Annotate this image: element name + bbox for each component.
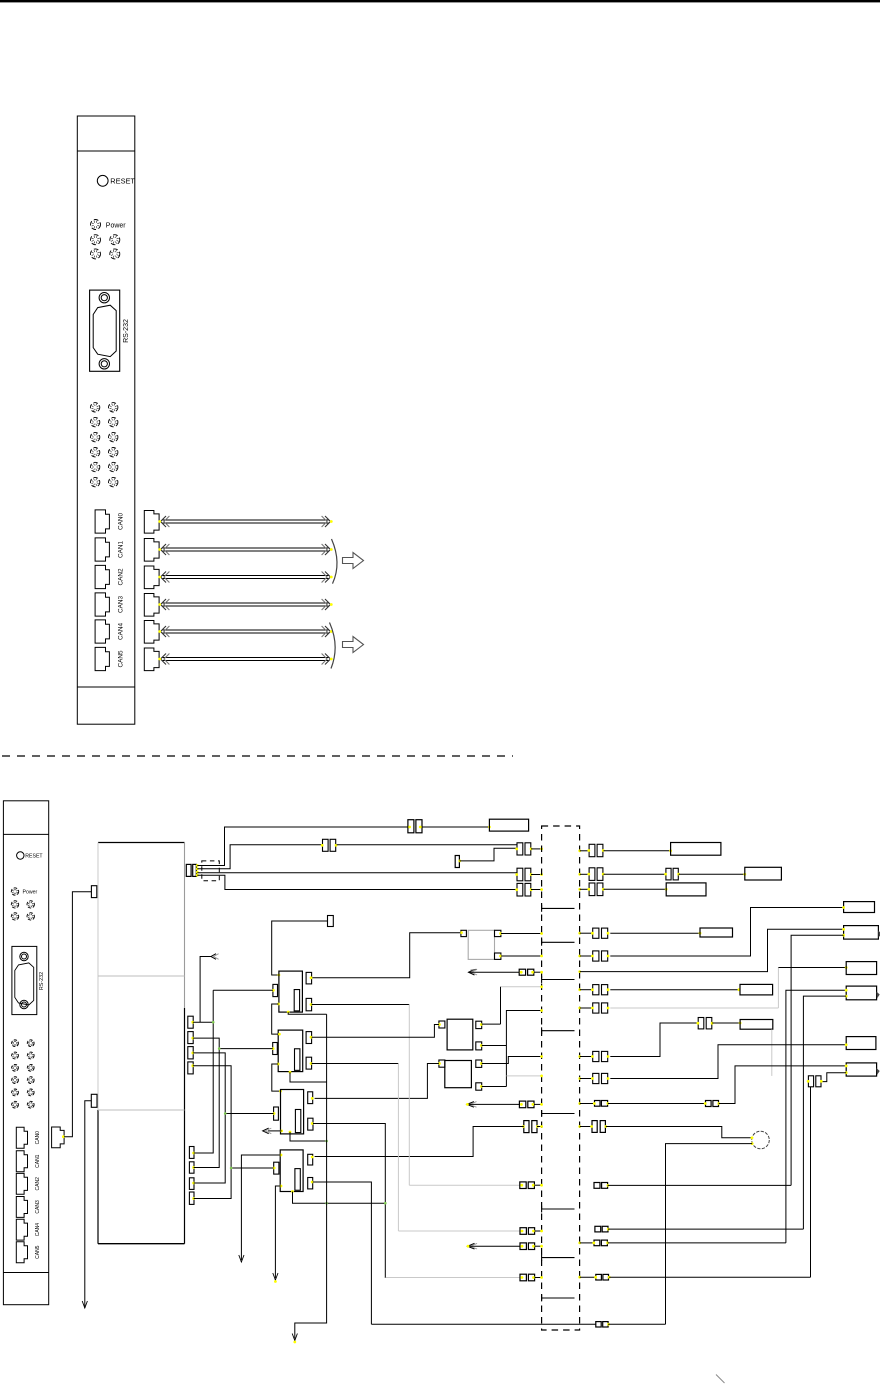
terminal TB1 [844, 902, 875, 913]
svg-text:CAN1: CAN1 [117, 541, 124, 558]
row E pair (grey wire) [578, 1007, 581, 1010]
wire row E left to bundle [506, 1011, 541, 1087]
box T6 [740, 1020, 773, 1030]
wire row I to alarm bell [606, 1127, 752, 1138]
terminal TB2 [844, 926, 879, 940]
bus wire pin2-pin6 [193, 1038, 219, 1167]
CAN1 cable plug [144, 539, 159, 562]
status LED row3 right [110, 249, 120, 259]
wire K2 pin1 up to U2 left pin [312, 1025, 439, 1038]
row F pair [578, 1055, 581, 1058]
RS-232 screw bottom [99, 359, 109, 369]
CAN4 twisted-pair cable with arrows [158, 626, 332, 637]
front panel top cap line [77, 150, 135, 152]
wire K2 pin2 grey drop row K [312, 1063, 399, 1065]
board divider 1 [98, 975, 185, 977]
CAN5 twisted-pair cable with arrows [158, 654, 332, 665]
branch bus3 to K3 left pin [225, 1113, 273, 1115]
K4 bottom-left stub arrow [280, 1185, 283, 1188]
module U3 [445, 1061, 472, 1088]
CAN2 jack small [16, 1173, 27, 1194]
U3 left pin [439, 1060, 445, 1067]
wire U2 pin1 up [482, 1023, 501, 1025]
reset button small [17, 852, 24, 859]
J1 dashed outline [202, 861, 220, 881]
wire U3 left pin to K3 [315, 1064, 439, 1099]
row J left grey wire [409, 1184, 520, 1186]
wire U1 pin2 to bundle [501, 955, 542, 957]
wire W2 harness [197, 845, 322, 869]
CAN0 jack small [16, 1127, 27, 1148]
connector Q1 pair [666, 868, 671, 880]
module U1 (grey) [468, 930, 494, 959]
K3 right pin 1 [308, 1092, 313, 1104]
K3 right pin 2 [308, 1118, 313, 1130]
bus wire pin3-pin7 [193, 1053, 225, 1183]
K2 left pin [273, 1043, 278, 1055]
connector F5 pair [808, 1076, 813, 1087]
board pin 2 [188, 1032, 193, 1044]
wire K1 bottom-left to K2 top-left [277, 1003, 280, 1006]
CAN3 jack [95, 593, 109, 616]
row L pair [578, 1242, 581, 1245]
RS-232 DB9 shell [93, 305, 116, 356]
top border rule [0, 0, 880, 2]
LED matrix small 2x6 [12, 1040, 35, 1108]
U1 right pin 2 [495, 953, 501, 959]
CAN4 jack [95, 620, 109, 643]
RS-232 connector bezel [90, 290, 120, 371]
U1 left pin [461, 930, 467, 936]
wire row D to box T5 [610, 989, 740, 991]
pair L3 [520, 1182, 526, 1189]
row H pair [578, 1102, 581, 1105]
svg-text:CAN0: CAN0 [35, 1131, 41, 1145]
connector F2 on W2 [323, 839, 329, 851]
wire W3 harness [197, 872, 517, 874]
wire row M to V7 [609, 1276, 810, 1278]
wire row N [371, 1323, 595, 1325]
power LED [91, 220, 101, 230]
power LED small [11, 888, 18, 895]
CAN0 jack [95, 510, 109, 533]
row N pair on bell return [596, 1322, 601, 1327]
svg-text:CAN4: CAN4 [117, 623, 124, 640]
vertical V7 from F5 [810, 1087, 812, 1277]
bundle arrow CAN4-CAN5 [343, 637, 364, 653]
board pin 5 [189, 1147, 194, 1159]
terminal box T1 [671, 843, 721, 856]
box B1 [489, 819, 528, 831]
svg-text:CAN5: CAN5 [35, 1245, 41, 1259]
connector F4 pair [706, 1101, 712, 1107]
wire row C to TB2 [578, 970, 581, 973]
svg-text:CAN2: CAN2 [35, 1177, 41, 1191]
K2 right pin 1 [306, 1032, 312, 1044]
status LED row3 left [91, 249, 101, 259]
CAN1 jack small [16, 1151, 27, 1172]
diagonal tick bottom right [716, 1375, 725, 1384]
board pin 3 [188, 1047, 193, 1059]
row R2 pair P2 [578, 873, 581, 876]
CAN5 jack small [16, 1242, 27, 1263]
wire C5 to cable bundle [531, 889, 542, 891]
board pin 7 [189, 1178, 194, 1190]
connector C3 pair [517, 843, 523, 855]
RS-232 screw top small [20, 952, 28, 960]
terminal box T3 [666, 883, 706, 896]
wire row L to V4 [608, 1242, 786, 1244]
wire C4 to cable bundle [531, 874, 542, 876]
common drain bus [295, 1014, 327, 1338]
cable bundle dashed box [542, 826, 580, 1330]
K3 bottom-left arrow [280, 1130, 283, 1133]
wire K1 left pin feed [212, 989, 214, 991]
wire P3 to terminal T3 [604, 888, 667, 890]
U2 right pin 1 [476, 1021, 482, 1028]
connector C4 pair [517, 868, 523, 881]
vertical V5 to TB2 pin2 [791, 935, 844, 1185]
wire row F up to F3 pair [610, 1023, 698, 1057]
module U2 [447, 1019, 473, 1050]
K1 bottom node [287, 1011, 290, 1014]
RS-232 screw top [99, 293, 109, 303]
wire C3 to cable bundle [531, 848, 542, 850]
wire row J to V5 [608, 1184, 792, 1186]
terminal box T2 [745, 867, 782, 880]
wire row K to V6 [608, 1228, 803, 1230]
panel cap line bottom [3, 1272, 48, 1274]
svg-text:Power: Power [106, 222, 127, 229]
K4 left pin [274, 1162, 279, 1174]
board left-edge port lower [91, 1094, 97, 1107]
svg-text:CAN3: CAN3 [35, 1200, 41, 1214]
CAN1 jack [95, 538, 109, 561]
wire W1 harness [197, 827, 408, 866]
wire W4 harness [197, 875, 517, 889]
CAN3 cable plug [144, 594, 159, 617]
board pin 1 [188, 1016, 193, 1028]
panel cap line top [3, 833, 48, 835]
K4 right pin 1 [308, 1154, 313, 1165]
row R3 pair P3 [578, 888, 581, 891]
wire row B to TB1 [610, 908, 843, 957]
connector F3 pair [698, 1018, 704, 1029]
wire U1 pin1 to bundle [501, 933, 542, 935]
RS-232 DB9 shell small [15, 963, 34, 1005]
relay K3 [281, 1090, 304, 1134]
box T4 [700, 928, 733, 937]
bundle arc CAN4-CAN5 [330, 623, 336, 669]
section separator dashed line [2, 755, 513, 757]
CAN2 cable plug [144, 566, 159, 589]
CAN5 jack [95, 647, 109, 670]
U2 right pin 2 [476, 1042, 482, 1050]
wire row G up to TB5 [610, 1045, 846, 1079]
wire board port to antenna stub [85, 1101, 92, 1307]
J1 pin dots [196, 864, 199, 867]
CAN4 cable plug [144, 621, 159, 644]
wire P1 to terminal T1 [604, 850, 671, 852]
CAN2 twisted-pair cable with arrows [158, 572, 332, 583]
board divider 2 [98, 1109, 185, 1111]
RS-232 bezel small [12, 946, 37, 1014]
wire CAN0 plug to CPU board [64, 892, 91, 1137]
bus wire pin4-pin8 [193, 1066, 231, 1199]
CAN1 twisted-pair cable with arrows [158, 544, 332, 555]
pair L1 [519, 969, 525, 975]
connector F1 on W1 [408, 820, 414, 833]
U1 right pin 1 [495, 930, 501, 936]
wire W2 to C3 [337, 844, 517, 846]
K1 right pin 1 [306, 972, 312, 984]
wire U2 pin2 to junction [482, 1045, 507, 1047]
left arrow row 1246 [468, 1243, 475, 1249]
status LED row2 right [110, 235, 120, 245]
status LEDs small rows [11, 901, 34, 920]
board pin 4 [188, 1062, 193, 1074]
svg-text:CAN3: CAN3 [117, 596, 124, 613]
svg-text:CAN4: CAN4 [35, 1223, 41, 1237]
reset button [97, 175, 108, 186]
K2 bottom node [289, 1071, 292, 1074]
branch bus2 to K2 left pin [219, 1048, 273, 1050]
row I tall pair [578, 1125, 581, 1128]
pair L2 [519, 1101, 525, 1108]
relay K4 [280, 1150, 303, 1192]
U3 right pin 2 [476, 1083, 482, 1090]
terminal TB4 [846, 986, 876, 1000]
multi-pin connector J1 on board edge [186, 864, 191, 876]
wire K4 pin2 to bell return [313, 1182, 372, 1324]
wire K1 pin2 grey drop row J [312, 1004, 410, 1006]
branch bus4 to K4 left pin [231, 1167, 274, 1169]
wire row A to box T4 [610, 932, 700, 934]
grey wire row D left from U2 pin1 [501, 986, 542, 988]
CPU board outline [98, 842, 185, 844]
K1 right pin 2 [306, 998, 312, 1010]
relay K1 [279, 971, 303, 1012]
connector C5 pair [517, 883, 523, 896]
wire bus1 to K1 left pin [213, 989, 273, 991]
grey lead from T6 [771, 1029, 773, 1076]
CAN5 cable plug [144, 648, 159, 671]
row D pair [578, 988, 581, 991]
terminal TB6 [846, 1063, 876, 1076]
pair L5 [520, 1243, 526, 1250]
CAN2 jack [95, 565, 109, 588]
svg-text:RS-232: RS-232 [39, 972, 45, 990]
wire F3 to box T6 [712, 1022, 740, 1024]
row R1 pair P1 [578, 849, 581, 852]
grey branch row G left [506, 1075, 541, 1077]
wire U3 pin2 joins junction [482, 1086, 507, 1088]
CAN0 plug on cable [52, 1127, 65, 1148]
grey wire row E up to TB3 [610, 1007, 778, 1009]
wire R2 to K1 top [272, 921, 328, 975]
row B pair [578, 955, 581, 958]
row M pair [578, 1276, 581, 1279]
row M left grey wire [385, 1277, 520, 1279]
board pin 6 [189, 1162, 194, 1173]
row I left tall pair [524, 1121, 529, 1133]
vertical V4 to TB4 [786, 990, 846, 1243]
CAN3 twisted-pair cable with arrows [158, 599, 332, 610]
bundle arc CAN1-CAN2 [332, 539, 338, 584]
wire F4 up to TB6 [719, 1066, 847, 1104]
wire K2 bottom-left to K3 top-left [277, 1063, 280, 1066]
svg-text:CAN5: CAN5 [117, 650, 124, 667]
K4 bottom node [291, 1190, 294, 1193]
fuse R2 [328, 916, 334, 927]
front panel bottom cap line [77, 686, 135, 688]
fuse R1 [455, 856, 459, 868]
CAN0 cable plug [144, 511, 159, 534]
wire row H to F4 pair [608, 1103, 706, 1105]
wire U3 pin1 to bundle row F [482, 1057, 542, 1064]
status LED row2 left [91, 235, 101, 245]
K3 left pin [274, 1107, 279, 1120]
stub arrowhead down [82, 1301, 87, 1308]
front panel outline (wiring view) [3, 801, 48, 1305]
RS-232 screw bottom small [20, 1000, 28, 1008]
bus wire pin1-pin5 [193, 1021, 213, 1023]
row G pair [578, 1077, 581, 1080]
row A pair [578, 932, 581, 935]
K1 left pin [273, 984, 278, 996]
wire Q1 to terminal T2 [679, 873, 745, 875]
row J pair [594, 1183, 600, 1189]
K4 right pin 2 [308, 1178, 313, 1189]
pair L4 [520, 1228, 526, 1235]
U3 right pin 1 [476, 1060, 482, 1067]
wire row I left to K4 [315, 1127, 524, 1157]
wire U1 left pin drop to K1 [312, 933, 461, 978]
K4 top-left stub arrow [280, 1154, 283, 1157]
cable crossing segments [542, 905, 575, 1301]
K3 bottom node [289, 1131, 292, 1134]
wire R1 to C3 node [459, 848, 517, 861]
U2 left pin [439, 1021, 445, 1028]
K2 right pin 2 [306, 1057, 312, 1069]
CAN4 jack small [16, 1219, 27, 1240]
svg-text:RESET: RESET [25, 854, 43, 860]
relay K2 [278, 1030, 303, 1072]
row K left grey wire [398, 1230, 520, 1232]
wire P2 to Q1 [604, 873, 666, 875]
left arrow row 972 [469, 969, 475, 975]
svg-text:RS-232: RS-232 [123, 319, 130, 343]
bundle arrow CAN1-CAN2 [343, 553, 364, 569]
vertical V6 to TB4 pin2 [803, 996, 846, 1229]
CAN3 jack small [16, 1197, 27, 1218]
board left-edge port upper [91, 886, 96, 898]
box T5 [740, 984, 773, 995]
alarm bell circle [752, 1131, 770, 1149]
svg-text:CAN1: CAN1 [35, 1154, 41, 1168]
front panel outline (top view) [77, 116, 135, 724]
CAN0 twisted-pair cable with arrows [158, 516, 332, 527]
pair L6 [520, 1274, 526, 1281]
wire bell return [666, 1144, 753, 1325]
svg-text:CAN2: CAN2 [117, 568, 124, 585]
wire W1 to box B1 [422, 826, 489, 828]
wire to TB3 [778, 967, 846, 969]
wire K3 pin2 drop [313, 1124, 385, 1279]
branch pin1 to arrow [200, 957, 211, 1023]
svg-text:Power: Power [23, 890, 38, 896]
grey link row M [384, 1277, 386, 1280]
svg-text:RESET: RESET [110, 177, 135, 186]
LED matrix 2x6 [90, 403, 118, 487]
terminal TB5 [846, 1037, 876, 1050]
terminal TB3 [846, 962, 876, 975]
left arrow row 1105 [467, 1102, 474, 1108]
svg-text:CAN0: CAN0 [117, 513, 124, 530]
board pin 8 [189, 1192, 194, 1204]
row K pair [595, 1226, 601, 1232]
wire TB6 pin2 to F5 pair [822, 1073, 846, 1082]
